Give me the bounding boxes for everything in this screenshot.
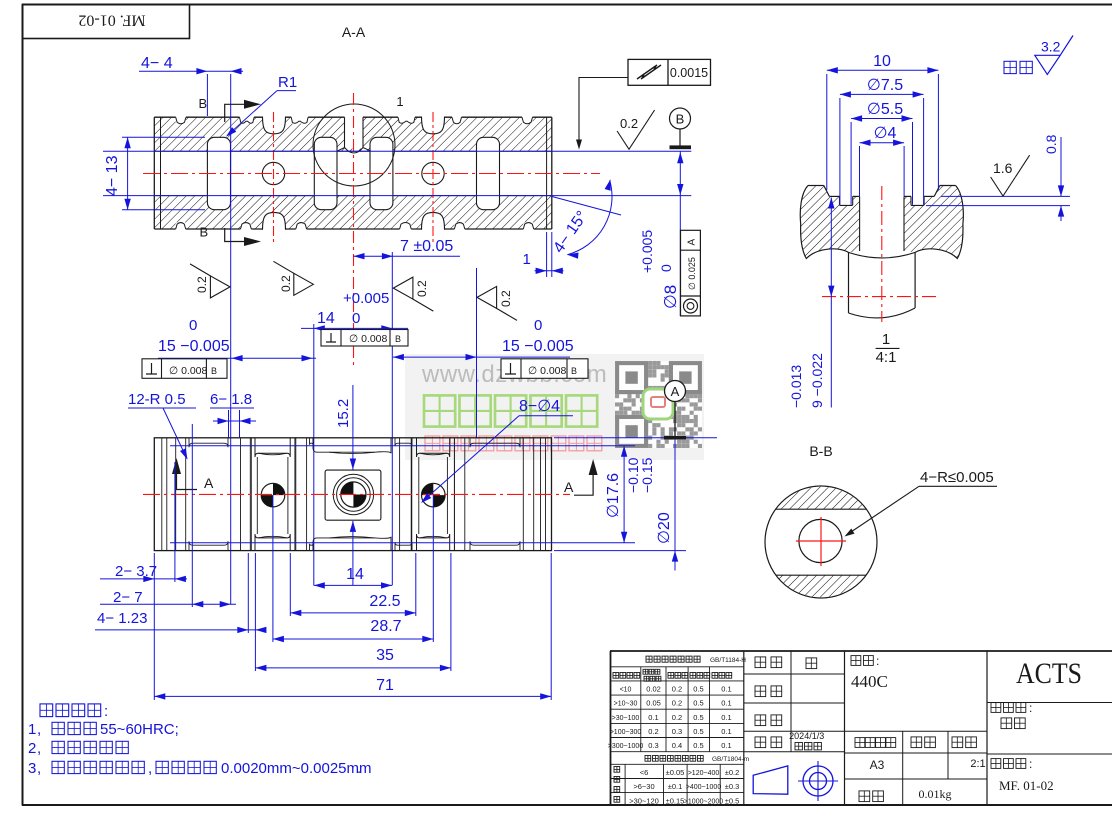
projection symbols (753, 766, 788, 794)
svg-text:,: , (148, 760, 152, 777)
detail bore walls (859, 196, 861, 251)
center top slot (345, 113, 364, 149)
svg-text:.: . (357, 760, 361, 777)
svg-text:GB/T1804-m: GB/T1804-m (712, 756, 749, 763)
svg-text:B: B (199, 96, 208, 111)
svg-text:3.2: 3.2 (1041, 39, 1061, 55)
svg-text:4:1: 4:1 (876, 349, 897, 366)
svg-text:0.1: 0.1 (721, 685, 731, 694)
OD notch top (291, 113, 308, 124)
svg-text:∅ 0.008: ∅ 0.008 (528, 365, 566, 377)
svg-text:1: 1 (396, 94, 403, 109)
B-B red cross (796, 540, 846, 542)
svg-text:>120~400: >120~400 (688, 770, 720, 777)
QR code (615, 361, 702, 448)
valve slot s3 (370, 137, 393, 209)
svg-text:0.2: 0.2 (195, 276, 209, 293)
svg-text:0.2: 0.2 (499, 290, 513, 307)
svg-text:0.01kg: 0.01kg (919, 787, 952, 801)
svg-text:∅5.5: ∅5.5 (867, 101, 903, 118)
svg-text:B: B (211, 366, 217, 376)
detail balloon circle 1 (313, 104, 395, 186)
dim 9 vertical with tolerances (830, 198, 832, 408)
bottom dims extension lines (153, 553, 155, 700)
svg-text:14: 14 (346, 566, 364, 583)
angular dim 4-15deg (552, 197, 621, 216)
svg-text::: : (876, 654, 879, 668)
svg-text:10: 10 (873, 53, 891, 70)
watermark red slogan (425, 436, 440, 451)
svg-text:2:1: 2:1 (970, 758, 985, 770)
svg-text:2− 3.7: 2− 3.7 (115, 563, 157, 580)
svg-text:ACTS: ACTS (1016, 657, 1082, 690)
svg-text:0.8: 0.8 (1043, 134, 1059, 154)
svg-text:6− 1.8: 6− 1.8 (210, 391, 252, 408)
target hole center (341, 482, 366, 507)
bottom view centerline (143, 493, 570, 495)
svg-text:GB/T1184-H: GB/T1184-H (710, 657, 746, 664)
svg-text:+0.005: +0.005 (639, 230, 655, 273)
detail ring grooves (840, 196, 853, 205)
svg-text:0.5: 0.5 (693, 741, 703, 750)
surface finish 0.2 pointing left on s3 (393, 277, 413, 299)
svg-text:±0.1: ±0.1 (668, 782, 683, 791)
svg-text:R1: R1 (278, 74, 297, 91)
svg-text:0: 0 (658, 264, 674, 272)
centerline vertical hole 2 (432, 112, 434, 242)
groove lines bottom view (175, 438, 177, 551)
svg-text:0.5: 0.5 (693, 685, 703, 694)
svg-text:22.5: 22.5 (369, 593, 400, 610)
svg-text:∅ 0.008: ∅ 0.008 (169, 365, 207, 377)
svg-text:B: B (200, 225, 209, 240)
svg-text:0.1: 0.1 (648, 713, 658, 722)
svg-text:MF. 01-02: MF. 01-02 (78, 12, 145, 29)
OD notch top (240, 113, 255, 124)
bottom view outline (154, 438, 551, 551)
slope tolerance frame 0.0015 (628, 59, 711, 85)
svg-text:9 −0.022: 9 −0.022 (809, 353, 825, 408)
OD relief groove n2 bottom (422, 212, 445, 234)
svg-text:>30~120: >30~120 (629, 796, 659, 805)
svg-text:0.1: 0.1 (721, 699, 731, 708)
svg-text:3: 3 (28, 760, 36, 777)
surface finish 0.2 pointing left on s4 (477, 286, 497, 308)
svg-text:0.0020mm~0.0025mm: 0.0020mm~0.0025mm (221, 760, 372, 777)
svg-text:35: 35 (376, 647, 394, 664)
OD notch top (176, 113, 186, 124)
shaft outline (154, 116, 552, 118)
dim Ø8 vertical (679, 151, 681, 316)
OD notch top (452, 113, 462, 124)
detail bore dish (849, 252, 916, 258)
svg-text:>6~30: >6~30 (633, 782, 654, 791)
svg-text:0.1: 0.1 (721, 741, 731, 750)
B-B hatched caps (765, 486, 877, 598)
detail flange hatched section left (800, 186, 859, 259)
OD notch bottom (400, 222, 412, 233)
tolerance frame perp 0.008 B (right) (501, 359, 588, 379)
svg-text:0.5: 0.5 (693, 713, 703, 722)
B-B outer circle (765, 486, 877, 598)
surface finish 0.2 top right (617, 131, 641, 149)
svg-text:∅17.6: ∅17.6 (605, 473, 622, 518)
svg-text:0: 0 (352, 310, 360, 327)
svg-text:28.7: 28.7 (370, 618, 401, 635)
svg-text:B: B (395, 334, 401, 344)
svg-text:4− 1.23: 4− 1.23 (97, 610, 147, 627)
svg-text:0.3: 0.3 (672, 727, 682, 736)
svg-text:±0.3: ±0.3 (725, 782, 740, 791)
svg-text:A3: A3 (870, 758, 885, 772)
svg-text:0.3: 0.3 (648, 741, 658, 750)
svg-text:1: 1 (28, 721, 36, 738)
svg-text:B-B: B-B (809, 443, 832, 459)
svg-text:A: A (564, 479, 574, 495)
datum A symbol (664, 436, 686, 440)
detail stem (848, 252, 850, 313)
svg-text:440C: 440C (851, 672, 888, 691)
B-B bore circle (799, 519, 842, 562)
svg-text:±0.05: ±0.05 (666, 768, 685, 777)
dim 0.8 right (941, 195, 1070, 197)
svg-text:4−R≤0.005: 4−R≤0.005 (920, 469, 994, 486)
svg-text:<6: <6 (640, 768, 649, 777)
OD notch top (398, 113, 415, 124)
svg-text:,: , (37, 760, 41, 777)
svg-text:±0.2: ±0.2 (725, 768, 740, 777)
center square pocket (325, 470, 381, 520)
middle block design rows (790, 651, 792, 752)
surface finish qiyu 3.2 (others) (1004, 61, 1016, 73)
border frame (22, 4, 1112, 6)
detail centerlines (881, 186, 883, 322)
watermark green brand (424, 395, 455, 426)
detail outer flanks (800, 186, 848, 259)
svg-text:−0.15: −0.15 (639, 457, 655, 493)
tech requirements (40, 704, 53, 717)
svg-text:2: 2 (28, 740, 36, 757)
OD relief groove n1 top (263, 112, 286, 134)
centerline vertical hole 1 (273, 112, 275, 242)
svg-text:8−∅4: 8−∅4 (519, 398, 560, 415)
svg-text:A: A (671, 384, 680, 399)
svg-text:∅4: ∅4 (874, 125, 897, 142)
surface finish 0.2 pointing right on s2 (294, 273, 314, 295)
svg-text:4− 4: 4− 4 (141, 55, 173, 72)
svg-text:B: B (571, 366, 577, 376)
centerline horizontal A-A (143, 173, 600, 175)
svg-text:0.0015: 0.0015 (670, 66, 708, 80)
svg-text:+0.005: +0.005 (343, 290, 389, 307)
svg-text:0.2: 0.2 (672, 699, 682, 708)
OD notch bottom (454, 222, 464, 233)
surface finish 1.6 (991, 177, 1016, 196)
svg-text:A: A (204, 475, 214, 491)
section A arrow left (177, 463, 198, 490)
svg-text::: : (1029, 757, 1032, 771)
slot window right (411, 438, 413, 551)
svg-text:MF. 01-02: MF. 01-02 (999, 778, 1054, 793)
svg-text:0: 0 (189, 317, 197, 334)
cross hole right (422, 162, 444, 184)
watermark panel (405, 354, 704, 460)
svg-text::: : (1029, 701, 1032, 715)
svg-text:>1000~2000: >1000~2000 (684, 798, 723, 805)
svg-text:0.5: 0.5 (693, 699, 703, 708)
svg-text:>30~100: >30~100 (612, 715, 640, 722)
ACTS cells (987, 702, 1112, 704)
svg-text:1: 1 (882, 331, 890, 348)
svg-text:B: B (676, 112, 685, 127)
svg-text:12-R 0.5: 12-R 0.5 (128, 391, 186, 408)
tolerance frame perp 0.008 B (left) (142, 359, 227, 379)
svg-text::: : (104, 703, 108, 720)
svg-text:15 −0.005: 15 −0.005 (158, 338, 230, 355)
valve slot s4 (477, 137, 500, 209)
end cap lines (161, 438, 163, 551)
centerline vertical center (353, 93, 355, 366)
long extension line s3 right (391, 252, 393, 585)
OD relief groove n1 bottom (263, 212, 286, 234)
rotated datum frame Ø0.025 A (681, 230, 701, 316)
OD notch bottom (296, 222, 307, 233)
svg-text:±0.5: ±0.5 (725, 796, 740, 805)
extension line bore bottom (103, 195, 691, 197)
svg-text:∅7.5: ∅7.5 (867, 77, 903, 94)
leader for 0.0015 (579, 78, 628, 146)
svg-text:0.2: 0.2 (279, 275, 293, 292)
material cells (986, 651, 988, 805)
detail outline top faces (808, 185, 824, 187)
long extension line s4 left (476, 268, 478, 438)
svg-text:15 −0.005: 15 −0.005 (502, 338, 574, 355)
target hole right (422, 483, 446, 507)
svg-text:A-A: A-A (342, 24, 366, 40)
svg-text:1: 1 (523, 251, 531, 268)
datum B symbol (670, 108, 691, 129)
svg-text:0.2: 0.2 (672, 713, 682, 722)
svg-text:2024/1/3: 2024/1/3 (789, 731, 824, 741)
svg-text:0.2: 0.2 (620, 116, 638, 131)
svg-text:,: , (37, 740, 41, 757)
svg-text:>10~30: >10~30 (614, 701, 638, 708)
svg-text:71: 71 (376, 677, 394, 694)
pocket section panel (deep) (313, 438, 391, 453)
svg-text:∅ 0.008: ∅ 0.008 (349, 333, 387, 345)
valve slot s2 (314, 137, 337, 209)
OD notch bottom (523, 222, 533, 233)
extension line bore top / datum B line (103, 150, 691, 152)
svg-text:,: , (37, 721, 41, 738)
svg-text:1.6: 1.6 (993, 160, 1013, 176)
valve slot s1 (207, 137, 230, 209)
svg-text:14: 14 (317, 310, 335, 327)
OD notch bottom (176, 222, 186, 233)
svg-text:<10: <10 (620, 687, 632, 694)
svg-text:55~60HRC;: 55~60HRC; (100, 721, 179, 738)
A-A shaft section: hatched bands (154, 117, 552, 151)
cross hole left (262, 162, 284, 184)
svg-text:0.2: 0.2 (415, 280, 429, 297)
svg-text:4− 13: 4− 13 (104, 155, 121, 196)
svg-text:0: 0 (534, 317, 542, 334)
svg-text:7 ±0.05: 7 ±0.05 (400, 238, 453, 255)
OD relief groove n2 top (422, 112, 445, 134)
svg-text:0.1: 0.1 (721, 713, 731, 722)
OD notch bottom (241, 222, 252, 233)
svg-text:0.5: 0.5 (693, 727, 703, 736)
tolerance frame perp 0.008 B (mid) (321, 330, 408, 347)
section panel edges (shallow) (189, 438, 228, 447)
section A arrow right (574, 464, 593, 495)
svg-text:0.05: 0.05 (646, 699, 661, 708)
svg-text:0.2: 0.2 (648, 727, 658, 736)
tolerance table (611, 666, 744, 668)
detail flange hatched section right (904, 186, 963, 259)
svg-text:∅8: ∅8 (661, 285, 680, 309)
long extension line s2 left (313, 324, 315, 585)
svg-text:0.4: 0.4 (672, 741, 682, 750)
svg-text:15.2: 15.2 (335, 399, 352, 428)
svg-text:A: A (687, 239, 698, 246)
svg-text:0.1: 0.1 (721, 727, 731, 736)
title block outer (610, 650, 1112, 652)
svg-text:>400~1000: >400~1000 (686, 784, 722, 791)
svg-text:±0.15: ±0.15 (666, 796, 685, 805)
dim Ø17.6 / Ø20 right of bottom view (554, 437, 717, 439)
svg-text:0.02: 0.02 (646, 685, 661, 694)
long extension line s1 right (230, 74, 232, 604)
svg-text:∅ 0.025: ∅ 0.025 (687, 257, 697, 290)
OD notch top (522, 113, 533, 124)
svg-text:0.2: 0.2 (672, 685, 682, 694)
bore top dip arc (337, 148, 371, 154)
svg-text:>100~300: >100~300 (610, 729, 642, 736)
slot window left (249, 438, 251, 551)
svg-text:2− 7: 2− 7 (113, 589, 143, 606)
svg-text:−0.013: −0.013 (788, 365, 804, 408)
corner label box MF.01-02 (23, 5, 190, 39)
surface finish 0.2 pointing right on s1 (210, 276, 230, 298)
target hole left (261, 483, 285, 507)
svg-text:>300~1000: >300~1000 (608, 743, 644, 750)
svg-text:∅20: ∅20 (656, 512, 673, 544)
